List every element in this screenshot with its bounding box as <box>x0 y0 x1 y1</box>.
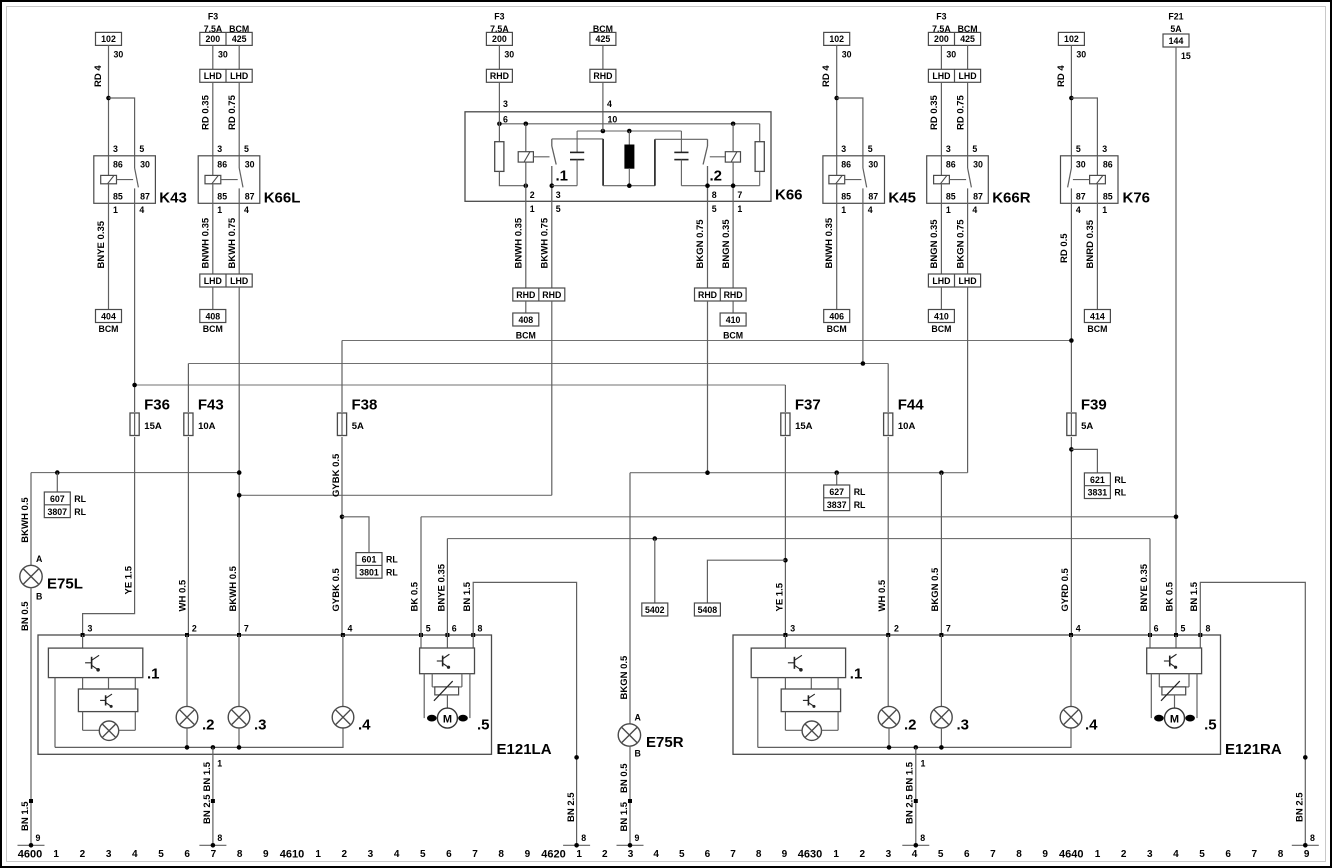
node K66 B1 coil1 bottom <box>524 183 529 188</box>
svg-text:GYBK 0.5: GYBK 0.5 <box>331 453 342 497</box>
wire branch to K45 pin5 <box>837 98 863 156</box>
wire pin3 into unit RA <box>784 635 786 648</box>
svg-text:.2: .2 <box>202 717 215 734</box>
svg-text:6: 6 <box>446 849 452 860</box>
svg-text:BK 0.5: BK 0.5 <box>1165 581 1176 611</box>
svg-text:RL: RL <box>854 487 866 497</box>
svg-text:1: 1 <box>315 849 321 860</box>
connector box 5408 <box>694 603 720 616</box>
thermistor E121RA <box>1158 674 1160 687</box>
wire K66 coil rail Y1 <box>499 123 759 125</box>
svg-text:87: 87 <box>973 191 983 201</box>
svg-text:BNWH 0.35: BNWH 0.35 <box>514 217 525 268</box>
connector box 408 K66L <box>200 310 226 323</box>
svg-text:1: 1 <box>1095 849 1101 860</box>
svg-text:85: 85 <box>1103 191 1113 201</box>
relay coil K66.2 <box>725 152 740 162</box>
capacitor K66 C1 <box>576 131 578 152</box>
node splice BN riser RA <box>1303 755 1308 760</box>
svg-text:4: 4 <box>607 99 612 109</box>
svg-text:7: 7 <box>1252 849 1258 860</box>
wire LHD to K66L pin5 <box>238 82 240 156</box>
wire K66 heavy vertical .2 <box>654 139 656 185</box>
svg-text:BN 0.5: BN 0.5 <box>619 763 630 793</box>
wire lower box to lamp leads <box>82 712 84 731</box>
svg-text:3: 3 <box>841 144 846 154</box>
control module E121LA.1 <box>48 648 142 678</box>
svg-text:BKWH 0.75: BKWH 0.75 <box>540 217 551 268</box>
svg-text:3: 3 <box>790 623 795 633</box>
wire bus corner down to E75R <box>629 473 631 725</box>
svg-text:4630: 4630 <box>798 849 822 861</box>
switch K66.2 <box>707 139 709 146</box>
wire tap to 621 box <box>1071 449 1097 473</box>
connector box RHD right center <box>590 69 616 82</box>
svg-text:404: 404 <box>101 311 116 321</box>
svg-text:5: 5 <box>868 144 873 154</box>
svg-text:7: 7 <box>990 849 996 860</box>
ground tick LA pin1 <box>199 844 226 846</box>
svg-text:RHD: RHD <box>698 290 717 300</box>
svg-text:A: A <box>635 712 642 722</box>
wire pins 6 5 8 into motor module RA <box>1149 635 1151 648</box>
svg-text:9: 9 <box>525 849 531 860</box>
wire K66L pin1 to lower LHD <box>212 203 214 274</box>
node junction GYBK tap <box>340 515 345 520</box>
svg-text:RHD: RHD <box>516 290 535 300</box>
svg-text:30: 30 <box>842 50 852 60</box>
svg-text:RL: RL <box>1114 488 1126 498</box>
svg-text:8: 8 <box>1310 833 1315 843</box>
connector box 425 center <box>590 32 616 45</box>
node K66 switch2 bottom <box>705 183 710 188</box>
svg-text:RHD: RHD <box>593 71 612 81</box>
wire lower box to lamp leads RA <box>784 712 786 731</box>
fuse F43 10A <box>184 413 193 436</box>
svg-text:LHD: LHD <box>932 71 950 81</box>
node junction line C at F36 column <box>132 383 137 388</box>
wire K66 pin3 into resistor <box>498 112 500 142</box>
wire tap to 5402 box <box>654 539 656 603</box>
connector box 414 <box>1084 310 1110 323</box>
wire pin2 to lamp .2 RA <box>887 635 889 707</box>
svg-text:8: 8 <box>237 849 243 860</box>
wire K66 coil1 to pin2 <box>525 162 527 201</box>
wire E121LA pin1 bus tee <box>211 745 216 750</box>
svg-text:410: 410 <box>726 315 741 325</box>
svg-text:5: 5 <box>972 144 977 154</box>
wire K66 coil2 link <box>710 156 726 158</box>
svg-text:1: 1 <box>53 849 59 860</box>
svg-text:RD 4: RD 4 <box>1056 65 1067 87</box>
node junction 607 tap <box>55 470 60 475</box>
lamp E75L <box>20 565 42 587</box>
svg-text:3: 3 <box>503 99 508 109</box>
svg-text:9: 9 <box>1042 849 1048 860</box>
svg-text:E121LA: E121LA <box>497 741 552 758</box>
svg-text:1: 1 <box>833 849 839 860</box>
svg-text:BKWH 0.5: BKWH 0.5 <box>20 497 31 543</box>
wire tap to 5408 box <box>707 560 785 603</box>
svg-text:30: 30 <box>504 50 514 60</box>
svg-text:BN 2.5: BN 2.5 <box>566 792 577 822</box>
wire K66 Y2 rail <box>577 130 681 132</box>
svg-text:2: 2 <box>342 849 348 860</box>
wire lamp .3 to bus RA <box>940 728 942 748</box>
svg-text:30: 30 <box>245 160 255 170</box>
svg-text:4: 4 <box>132 849 138 860</box>
wire BNYE bus y538 (pin6 to pin6) <box>447 538 1150 540</box>
svg-text:2: 2 <box>860 849 866 860</box>
svg-text:621: 621 <box>1090 475 1105 485</box>
svg-text:K66: K66 <box>775 187 803 204</box>
wire K66 left resistor to B1 <box>499 171 525 185</box>
svg-text:5: 5 <box>426 623 431 633</box>
wire 425 to LHD K66R <box>967 45 969 69</box>
svg-text:1: 1 <box>113 205 118 215</box>
svg-text:3: 3 <box>217 144 222 154</box>
connector box 102 (K45 feed) <box>824 32 850 45</box>
node K66 Y1 coil1 <box>524 122 529 127</box>
wire BKGN 0.5 riser to E121RA pin7 <box>940 473 942 635</box>
svg-text:6: 6 <box>184 849 190 860</box>
wire .1 emitter to internal bus <box>54 678 56 748</box>
svg-text:5: 5 <box>1076 144 1081 154</box>
pin mark 7 E121RA <box>939 633 943 637</box>
fuse F39 5A <box>1067 413 1076 436</box>
pin mark 5 E121LA <box>419 633 423 637</box>
svg-text:RHD: RHD <box>542 290 561 300</box>
svg-text:5A: 5A <box>1081 421 1093 432</box>
wire bus line A (F38/F39 supply from K76 pin4) <box>342 340 1071 342</box>
svg-text:6: 6 <box>1225 849 1231 860</box>
wire tap to 601 box <box>342 517 369 553</box>
svg-text:GYBK 0.5: GYBK 0.5 <box>331 567 342 611</box>
fuse F37 15A <box>781 413 790 436</box>
svg-text:8: 8 <box>756 849 762 860</box>
svg-text:4640: 4640 <box>1059 849 1083 861</box>
pin mark 2 E121LA <box>185 633 189 637</box>
svg-text:BCM: BCM <box>723 331 743 341</box>
connector box 408 center <box>513 313 539 326</box>
svg-text:3: 3 <box>556 190 561 200</box>
svg-text:LHD: LHD <box>230 276 248 286</box>
svg-text:8: 8 <box>1206 623 1211 633</box>
wire internal ground bus E121LA <box>55 728 343 748</box>
svg-text:.3: .3 <box>957 717 970 734</box>
wire K66 Y3a stub <box>552 138 603 140</box>
svg-text:RD 0.75: RD 0.75 <box>227 94 238 130</box>
node junction K76 feed split <box>1069 96 1074 101</box>
svg-text:RHD: RHD <box>724 290 743 300</box>
svg-text:2: 2 <box>192 623 197 633</box>
svg-text:1: 1 <box>530 204 535 214</box>
svg-text:4: 4 <box>394 849 400 860</box>
svg-text:9: 9 <box>1304 849 1310 860</box>
svg-text:1: 1 <box>737 204 742 214</box>
svg-text:.5: .5 <box>1204 717 1217 734</box>
node splice BN riser LA <box>574 755 579 760</box>
relay module K66 box <box>465 112 771 202</box>
svg-text:F3: F3 <box>208 12 218 22</box>
wire F44 output to E121RA pin2 <box>887 437 889 635</box>
node junction BKWH y495 <box>237 493 242 498</box>
svg-text:RD 4: RD 4 <box>93 65 104 87</box>
svg-text:LHD: LHD <box>230 71 248 81</box>
svg-text:BNWH 0.35: BNWH 0.35 <box>824 217 835 268</box>
svg-text:BN 2.5: BN 2.5 <box>202 794 213 824</box>
wire pin7 to lamp .3 RA <box>940 635 942 707</box>
wire LHD to K66R pin5 <box>967 82 969 156</box>
wire .1 box to lower box links <box>82 678 84 689</box>
svg-text:3: 3 <box>88 623 93 633</box>
svg-text:7: 7 <box>472 849 478 860</box>
wire RHD to K66 pin4 <box>602 82 604 112</box>
svg-text:M: M <box>443 713 452 725</box>
wire bus line B (F43/F44 supply from K45 pin4) <box>188 363 888 365</box>
svg-text:LHD: LHD <box>204 71 222 81</box>
svg-text:5: 5 <box>420 849 426 860</box>
wire K66 S1 segment <box>552 185 577 187</box>
splice BN 1.5 to BN 2.5 RA pin1 <box>914 799 918 803</box>
svg-text:BN 2.5: BN 2.5 <box>905 794 916 824</box>
ground tick RA pin1 <box>902 844 929 846</box>
wire BNYE bus corner down to RA pin6 <box>1149 539 1151 635</box>
svg-text:RL: RL <box>386 567 398 577</box>
wire LHD to box 408 K66L <box>212 287 214 310</box>
svg-text:1: 1 <box>841 205 846 215</box>
svg-text:86: 86 <box>1103 160 1113 170</box>
svg-text:BKGN 0.75: BKGN 0.75 <box>955 219 966 269</box>
wire K66L pin4 to lower LHD <box>238 203 240 274</box>
wire bus corner down to E75L <box>30 473 32 566</box>
svg-text:.1: .1 <box>850 666 863 683</box>
svg-text:3: 3 <box>1147 849 1153 860</box>
svg-text:8: 8 <box>478 623 483 633</box>
wire K66R pin1 to lower LHD <box>940 203 942 274</box>
svg-text:5: 5 <box>158 849 164 860</box>
svg-text:RL: RL <box>1114 475 1126 485</box>
svg-text:601: 601 <box>362 555 377 565</box>
svg-text:15: 15 <box>1181 51 1191 61</box>
svg-text:4: 4 <box>244 205 249 215</box>
svg-text:LHD: LHD <box>959 276 977 286</box>
connector box 404 <box>96 310 122 323</box>
driver box E121LA.1 lower <box>78 689 137 712</box>
wire branch to K43 pin5 <box>109 98 135 156</box>
wire RHD to 408 center <box>525 301 527 313</box>
connector box RHD RHD center right <box>695 288 747 301</box>
wire thermistor to motor <box>446 695 448 708</box>
wire RHD to K66 pin3 <box>498 82 500 112</box>
wire K66 B2b segment <box>681 185 759 187</box>
svg-text:BN 1.5: BN 1.5 <box>619 801 630 831</box>
svg-text:6: 6 <box>503 114 508 124</box>
ground tick riser LA <box>563 844 590 846</box>
wire K66 pin4 to Y2 <box>602 112 604 131</box>
svg-text:7: 7 <box>244 623 249 633</box>
svg-text:5A: 5A <box>352 421 364 432</box>
svg-text:K66R: K66R <box>992 190 1031 207</box>
connector box LHD LHD lower K66L <box>200 274 252 287</box>
svg-text:200: 200 <box>934 34 949 44</box>
wire line C corner down to F37 <box>784 385 786 412</box>
connector box 200 center <box>486 32 512 45</box>
lamp E121RA.1 indicator <box>785 729 802 731</box>
svg-text:5408: 5408 <box>698 605 718 615</box>
svg-text:425: 425 <box>960 34 975 44</box>
svg-text:4: 4 <box>653 849 659 860</box>
wire K66 pin1b to RHD <box>732 201 734 288</box>
wire pin4 to lamp .4 <box>342 635 344 707</box>
switch K66.1 <box>551 139 553 146</box>
svg-text:627: 627 <box>829 487 844 497</box>
svg-text:30: 30 <box>1076 160 1086 170</box>
node K66 B2b coil2 bottom <box>731 183 736 188</box>
wire bus line C (F36/F37 supply from K43 pin4) <box>135 384 786 386</box>
svg-text:4: 4 <box>1076 205 1081 215</box>
wire K76 pin4 down to F39 <box>1070 203 1072 412</box>
wire right lamp bus y472 (BKGN to E75R) <box>630 472 968 474</box>
wire RHD to 410 center <box>732 301 734 313</box>
wire 200 to LHD K66L <box>212 45 214 69</box>
connector box 621/3831 RL <box>1084 473 1110 499</box>
svg-text:2: 2 <box>530 190 535 200</box>
connector box RHD left center <box>486 69 512 82</box>
svg-text:.4: .4 <box>358 717 371 734</box>
svg-text:4: 4 <box>348 623 353 633</box>
svg-text:E121RA: E121RA <box>1225 741 1282 758</box>
svg-text:5: 5 <box>556 204 561 214</box>
wire line A corner down to F38 <box>341 341 343 413</box>
svg-text:BNWH 0.35: BNWH 0.35 <box>200 217 211 268</box>
svg-text:RD 0.5: RD 0.5 <box>1059 233 1070 263</box>
node junction GYRD tap <box>1069 447 1074 452</box>
svg-text:LHD: LHD <box>932 276 950 286</box>
svg-text:M: M <box>1170 713 1179 725</box>
resistor K66 left <box>495 142 504 172</box>
relay K66R <box>927 156 989 204</box>
svg-text:3831: 3831 <box>1088 488 1108 498</box>
svg-text:BNRD 0.35: BNRD 0.35 <box>1085 219 1096 268</box>
svg-text:4600: 4600 <box>18 849 42 861</box>
connector box 5402 <box>642 603 668 616</box>
wire branch to K76 pin3 <box>1071 98 1097 156</box>
device box E121LA <box>38 635 492 754</box>
svg-text:4: 4 <box>139 205 144 215</box>
wire RA pin8 up and over to ground riser <box>1200 582 1305 845</box>
relay K45 <box>823 156 885 204</box>
connector box 144 <box>1163 34 1189 47</box>
wire K66 coil2 drop <box>732 124 734 152</box>
svg-text:30: 30 <box>218 50 228 60</box>
motor control box E121RA.5 <box>1147 648 1202 674</box>
svg-text:RL: RL <box>386 555 398 565</box>
connector box 601/3801 RL <box>356 553 382 579</box>
svg-text:4: 4 <box>868 205 873 215</box>
connector box 627/3837 RL <box>824 485 850 511</box>
wire .1 box to lower box links RA <box>784 678 786 689</box>
node junction 627 tap <box>834 470 839 475</box>
svg-text:30: 30 <box>114 50 124 60</box>
svg-text:86: 86 <box>217 160 227 170</box>
wire .1 emitter to internal bus RA <box>757 678 759 748</box>
svg-text:4620: 4620 <box>541 849 565 861</box>
svg-text:3837: 3837 <box>827 500 847 510</box>
svg-text:1: 1 <box>946 205 951 215</box>
svg-text:8: 8 <box>712 190 717 200</box>
svg-text:408: 408 <box>518 315 533 325</box>
svg-text:BCM: BCM <box>931 324 951 334</box>
pin mark 4 E121RA <box>1069 633 1073 637</box>
wire line B corner down to F43 <box>187 364 189 413</box>
ground tick E75L <box>18 844 45 846</box>
svg-text:3: 3 <box>113 144 118 154</box>
node junction line A end at F39 <box>1069 338 1074 343</box>
wire pin2 to lamp .2 <box>186 635 188 707</box>
svg-text:BN 1.5: BN 1.5 <box>20 801 31 831</box>
wire K76 pin1 to box 414 <box>1096 203 1098 309</box>
wire K66 pin1 to RHD <box>525 201 527 288</box>
svg-text:F44: F44 <box>898 397 925 414</box>
connector box 200/425 K66R <box>928 32 980 45</box>
svg-text:87: 87 <box>140 191 150 201</box>
svg-text:.4: .4 <box>1085 717 1098 734</box>
svg-text:3: 3 <box>886 849 892 860</box>
svg-text:F39: F39 <box>1081 397 1107 414</box>
svg-text:15A: 15A <box>795 421 813 432</box>
splice BN 0.5 to BN 1.5 <box>29 799 33 803</box>
svg-text:5: 5 <box>712 204 717 214</box>
wire BNYE bus corner down to pin6 <box>446 539 448 635</box>
motor E121RA.5 <box>1165 708 1185 728</box>
svg-text:10A: 10A <box>898 421 916 432</box>
wire BKGN 0.75 down to y472 corner <box>967 287 969 473</box>
svg-text:GYRD 0.5: GYRD 0.5 <box>1060 567 1071 611</box>
node junction 5408 tap on YE wire <box>783 558 788 563</box>
svg-text:6: 6 <box>1154 623 1159 633</box>
svg-text:4610: 4610 <box>280 849 304 861</box>
svg-text:7: 7 <box>730 849 736 860</box>
svg-text:8: 8 <box>1016 849 1022 860</box>
lamp E121RA.4 <box>1060 706 1082 728</box>
wire BN 0.5 below E75R <box>629 746 631 846</box>
relay K76 <box>1061 156 1119 204</box>
svg-text:F3: F3 <box>494 12 504 22</box>
svg-text:B: B <box>635 748 641 758</box>
svg-text:410: 410 <box>934 311 949 321</box>
lamp E121LA.3 <box>228 706 250 728</box>
svg-text:K76: K76 <box>1123 190 1151 207</box>
svg-text:LHD: LHD <box>204 276 222 286</box>
node K66 Y2 resistor top <box>627 129 632 134</box>
wire pins 5 6 8 into motor module <box>420 635 422 648</box>
svg-text:YE 1.5: YE 1.5 <box>124 565 135 594</box>
svg-text:1: 1 <box>576 849 582 860</box>
svg-text:BN 1.5: BN 1.5 <box>202 761 213 791</box>
wire 102 to K76 pin5 <box>1070 45 1072 155</box>
svg-text:BNYE 0.35: BNYE 0.35 <box>436 563 447 611</box>
svg-text:BCM: BCM <box>1087 324 1107 334</box>
fuse F36 15A <box>130 413 139 436</box>
svg-text:5402: 5402 <box>645 605 665 615</box>
wire LHD to box 410 K66R <box>940 287 942 310</box>
svg-text:10: 10 <box>608 114 618 124</box>
wire K66 B2a segment <box>603 185 655 187</box>
svg-text:2: 2 <box>80 849 86 860</box>
motor E121LA.5 <box>437 708 457 728</box>
wire K66 coil1 link to switch1 <box>533 156 549 158</box>
